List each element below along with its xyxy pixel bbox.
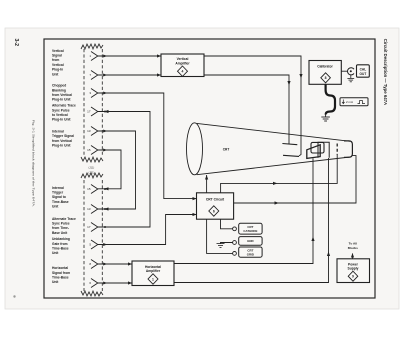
arrow into horiz amp pin6	[128, 281, 132, 284]
svg-text:Internal: Internal	[52, 186, 64, 190]
arrow to pin13b	[104, 207, 109, 210]
svg-text:Horizontal: Horizontal	[52, 266, 68, 270]
block horizontal amplifier	[132, 261, 174, 286]
svg-text:Circuit Description — Type 647: Circuit Description — Type 647A	[383, 39, 388, 105]
arrowheads	[104, 54, 354, 284]
box GND	[239, 237, 262, 246]
ground symbol for gnd jack	[217, 244, 225, 248]
svg-text:CAL: CAL	[360, 67, 367, 71]
svg-text:CRT Circuit: CRT Circuit	[206, 197, 225, 201]
junction dots at interface	[103, 55, 107, 285]
arrow to CRT shield	[205, 175, 208, 180]
svg-text:Amplifier: Amplifier	[146, 269, 161, 273]
CRT face ellipse	[187, 123, 203, 175]
wire pin3 chopped blanking to CRT circuit	[98, 93, 197, 199]
calibrator 2mA current loop (thick)	[326, 84, 335, 114]
svg-text:Calibrator: Calibrator	[317, 65, 333, 69]
svg-text:17: 17	[87, 225, 91, 229]
dashed interface line left, bottom section	[83, 180, 85, 291]
cathode element	[344, 141, 352, 157]
jack CRT cathode	[233, 227, 237, 231]
arrow on vert amp out lower	[287, 81, 290, 86]
pin 17b chevron	[91, 223, 98, 232]
svg-text:3-2: 3-2	[13, 39, 19, 47]
arrow into CRT circuit blanking	[193, 197, 197, 200]
svg-text:from Vertical: from Vertical	[52, 139, 72, 143]
svg-text:Signal: Signal	[52, 54, 62, 58]
ground under cal out jack	[347, 75, 354, 82]
svg-text:Plug-In Unit: Plug-In Unit	[52, 118, 71, 122]
svg-text:2 mA: 2 mA	[346, 100, 353, 104]
grid dotted element	[336, 144, 338, 155]
torn-edge squiggle bottom	[81, 291, 103, 296]
CAL OUT label box	[357, 65, 370, 77]
svg-text:13: 13	[87, 129, 91, 133]
diagram border frame	[44, 39, 375, 298]
arrow into CRT circuit unblanking	[193, 213, 197, 216]
svg-text:from Time-: from Time-	[52, 226, 69, 230]
svg-text:Alternate Trace: Alternate Trace	[52, 217, 76, 221]
label: Internal Trigger Signal from Vertical Plug-In Unit	[52, 130, 74, 148]
vertical deflection plate upper	[282, 144, 297, 145]
torn-edge squiggle top	[81, 44, 103, 49]
svg-text:Time-Base: Time-Base	[52, 200, 69, 204]
svg-text:GRID: GRID	[247, 253, 254, 257]
pin 7 chevron	[91, 71, 98, 80]
svg-text:1: 1	[152, 277, 154, 281]
pin 1 chevron	[91, 52, 98, 61]
torn-edge squiggle mid lower	[81, 173, 103, 178]
svg-text:Gate from: Gate from	[52, 242, 68, 246]
wire power supply to all blocks	[352, 254, 354, 259]
svg-text:Unit: Unit	[52, 72, 59, 76]
gun plate bracket	[311, 142, 324, 153]
gun outer electrode	[318, 142, 329, 158]
connector pins (chevrons)	[91, 52, 98, 288]
label: Unblanking Gate from Time-Base Unit	[52, 237, 70, 255]
svg-text:Plug-In Unit: Plug-In Unit	[52, 98, 71, 102]
label: Horizontal Signal from Time-Base Unit	[52, 266, 70, 284]
arrow to pin15b	[104, 187, 109, 190]
svg-text:OUT: OUT	[360, 72, 367, 76]
svg-text:4: 4	[182, 70, 184, 74]
svg-text:Unit: Unit	[52, 204, 59, 208]
wire gnd jack to ground	[221, 243, 233, 244]
svg-text:from Vertical: from Vertical	[52, 93, 72, 97]
wire calibrator to cal out jack	[341, 70, 347, 72]
svg-text:Vertical: Vertical	[52, 49, 64, 53]
svg-text:Base Unit: Base Unit	[52, 231, 68, 235]
block vertical amplifier	[161, 54, 204, 77]
block calibrator	[309, 61, 341, 85]
svg-text:from: from	[52, 58, 59, 62]
box CRT GRID	[239, 247, 262, 257]
svg-text:15: 15	[87, 187, 91, 191]
gun plate trapezoid	[307, 145, 320, 159]
wire CRT circuit to grid	[221, 155, 338, 193]
dashed interface line right, bottom section	[101, 180, 103, 291]
svg-text:Chopped: Chopped	[52, 84, 66, 88]
arrow into horiz amp pin8	[128, 262, 132, 265]
arrow on cathode line	[275, 201, 280, 204]
arrow on horiz out lower	[327, 252, 330, 257]
wire horiz amp output upper to gun plate	[174, 158, 313, 263]
wire pin8 to horizontal amplifier	[98, 263, 132, 265]
arrow power supply up	[351, 253, 354, 258]
svg-text:Blanking: Blanking	[52, 88, 66, 92]
pin 15b chevron	[91, 185, 98, 194]
pin 17 chevron	[91, 107, 98, 116]
arrow on vert amp out upper	[299, 74, 302, 79]
svg-text:Internal: Internal	[52, 130, 64, 134]
svg-text:8: 8	[325, 76, 327, 80]
wire CRT circuit to grid jack	[207, 219, 233, 253]
svg-text:Fig. 3-1 Simplified block dia: Fig. 3-1 Simplified block diagram of the…	[32, 120, 36, 207]
vertical deflection plate lower	[283, 155, 299, 156]
svg-text:Unit: Unit	[52, 251, 59, 255]
ground under loop	[321, 115, 330, 122]
svg-text:CRT: CRT	[223, 148, 230, 152]
wire pin17 alternate trace sync	[98, 112, 150, 228]
wire pin13 internal trigger	[98, 131, 136, 209]
dashed interface line left, top section	[83, 49, 85, 156]
svg-text:Signal from: Signal from	[52, 271, 70, 275]
CRT cone top edge	[197, 123, 350, 141]
svg-text:Unblanking: Unblanking	[52, 237, 70, 241]
svg-text:Alternate Trace: Alternate Trace	[52, 104, 76, 108]
svg-text:Plug-In Unit: Plug-In Unit	[52, 144, 71, 148]
svg-text:Trigger: Trigger	[52, 191, 64, 195]
arrow on grid line	[273, 182, 278, 185]
svg-text:9: 9	[352, 275, 354, 279]
arrow into vert amp pin7	[157, 73, 161, 76]
svg-text:Time-Base: Time-Base	[52, 275, 69, 279]
wire pin1 to vertical amplifier	[98, 55, 161, 57]
wire pin7 to vertical amplifier	[98, 74, 161, 76]
svg-text:GND: GND	[247, 239, 253, 243]
arrow to pin17	[104, 110, 109, 113]
punch hole dot	[13, 295, 15, 297]
jack CRT grid	[233, 252, 237, 256]
CRT cone bottom edge	[197, 157, 350, 175]
svg-text:Unit: Unit	[52, 280, 59, 284]
svg-text:Signal to: Signal to	[52, 195, 66, 199]
svg-text:15: 15	[87, 148, 91, 152]
pin 13b chevron	[91, 205, 98, 214]
svg-text:Sync Pulse: Sync Pulse	[52, 108, 70, 112]
label: Alternate Trace Sync Pulse to Vertical Plug-In Unit	[52, 104, 76, 122]
pin 3 chevron	[91, 89, 98, 98]
svg-text:6: 6	[213, 209, 215, 213]
svg-text:17: 17	[87, 110, 91, 114]
label: Alternate Trace Sync Pulse from Time-Base Unit	[52, 217, 76, 235]
wire pin6 to horizontal amplifier	[98, 282, 132, 284]
wire pin5 unblanking gate to CRT circuit	[98, 215, 197, 245]
svg-text:Sync Pulse: Sync Pulse	[52, 222, 70, 226]
wire vert amp output lower to upper deflection plate	[204, 75, 289, 144]
box CRT CATHODE	[239, 223, 262, 234]
label: Internal Trigger Signal to Time-Base Unit	[52, 186, 69, 208]
torn-edge squiggle mid upper	[81, 157, 103, 162]
pin 5 chevron	[91, 240, 98, 249]
pin 13 chevron	[91, 127, 98, 136]
arrow on horiz out upper	[311, 237, 314, 242]
pin 6 chevron	[91, 279, 98, 288]
cal out jack	[347, 68, 354, 75]
svg-text:Time-Base: Time-Base	[52, 246, 69, 250]
wire pin15 internal trigger	[98, 150, 121, 189]
dashed interface line right, top section	[101, 49, 103, 156]
svg-text:Supply: Supply	[348, 266, 359, 270]
wire CRT circuit to cathode jack	[221, 219, 233, 229]
wire CRT circuit to CRT shield	[206, 175, 208, 193]
svg-text:13: 13	[87, 207, 91, 211]
jack GND	[233, 241, 237, 245]
block CRT circuit	[197, 193, 234, 219]
wire vert amp output upper to lower deflection plate	[204, 56, 301, 156]
block power supply	[337, 259, 370, 283]
svg-text:to Vertical: to Vertical	[52, 113, 68, 117]
wire horiz amp output lower to gun plate	[174, 158, 329, 283]
svg-text:Trigger Signal: Trigger Signal	[52, 134, 74, 138]
svg-text:CATHODE: CATHODE	[243, 229, 257, 233]
pin 8 chevron	[91, 260, 98, 269]
svg-text:Plug-In: Plug-In	[52, 68, 63, 72]
pin 15 chevron	[91, 146, 98, 155]
svg-text:Vertical: Vertical	[52, 63, 64, 67]
svg-text:Amplifier: Amplifier	[175, 61, 190, 65]
svg-text:(J11): (J11)	[89, 166, 95, 170]
label: Chopped Blanking from Vertical Plug-In Unit	[52, 84, 72, 102]
2 mA label box	[340, 98, 368, 106]
arrow into vert amp pin1	[157, 54, 161, 57]
label: Vertical Signal from Vertical Plug-In Unit	[52, 49, 64, 77]
svg-text:Blocks: Blocks	[348, 246, 358, 250]
wire CRT circuit to cathode	[234, 156, 356, 203]
